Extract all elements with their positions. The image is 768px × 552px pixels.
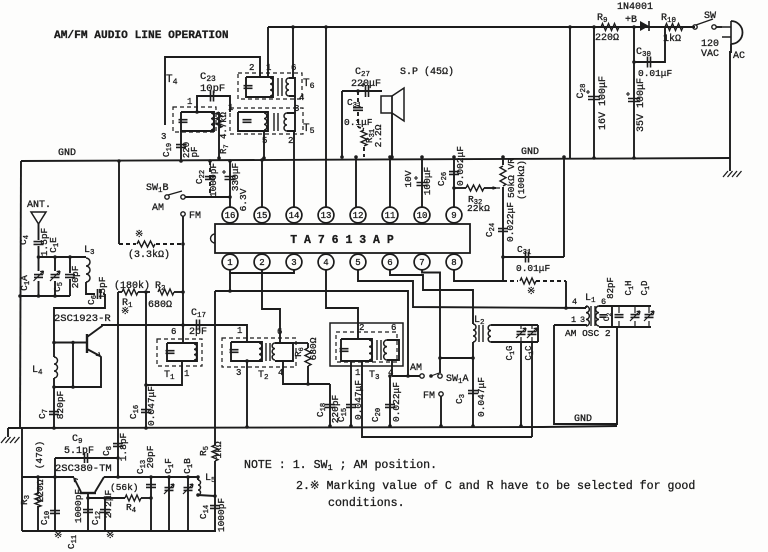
svg-text:820pF: 820pF xyxy=(55,390,66,419)
capacitor C12 2.2uF xyxy=(104,498,106,531)
L2 secondary tank top/bottom xyxy=(491,324,538,326)
capacitor 35V 100uF xyxy=(633,62,635,158)
wire: AC plug down to ground xyxy=(730,44,731,158)
svg-text:14: 14 xyxy=(289,211,300,221)
pin 3 xyxy=(286,254,302,270)
svg-text:conditions.: conditions. xyxy=(328,497,405,510)
ground symbol bottom-left xyxy=(7,428,9,437)
svg-text:(180k): (180k) xyxy=(114,280,150,292)
pin 5 xyxy=(350,254,366,270)
svg-text:ANT.: ANT. xyxy=(27,200,51,211)
wire: pin 4 to T3 pin2 xyxy=(326,269,358,339)
svg-text:6.3V: 6.3V xyxy=(238,188,249,211)
svg-text:2: 2 xyxy=(249,63,254,73)
capacitor 82pF xyxy=(611,305,651,307)
svg-text:15pF: 15pF xyxy=(97,276,108,299)
potentiometer VR 50k (100k) xyxy=(502,157,504,165)
switch SW1A xyxy=(438,374,442,378)
svg-text:4: 4 xyxy=(299,93,304,103)
capacitor C11 1000pF xyxy=(87,498,89,531)
svg-text:2.※ Marking value of C and R h: 2.※ Marking value of C and R have to be … xyxy=(296,480,695,493)
resistor R7 4.7k xyxy=(218,131,220,158)
Q2 emitter (arrow up-left) xyxy=(74,478,81,492)
svg-text:6: 6 xyxy=(387,258,392,268)
svg-text:GND: GND xyxy=(521,147,539,158)
svg-text:220pF: 220pF xyxy=(330,394,341,423)
svg-text:pF: pF xyxy=(190,147,200,158)
svg-text:FM: FM xyxy=(189,211,201,222)
Q2 collector xyxy=(95,477,104,492)
capacitor C30 0.01uF xyxy=(634,27,665,62)
svg-text:6: 6 xyxy=(277,327,282,337)
transformer T6 (dashed box) xyxy=(238,73,302,99)
T2 secondary xyxy=(272,343,275,360)
svg-text:220Ω: 220Ω xyxy=(595,33,619,44)
svg-text:2: 2 xyxy=(288,136,293,146)
wire: pin 13 to top rail xyxy=(325,27,327,208)
svg-text:+B: +B xyxy=(625,15,637,26)
svg-text:2SC380-TM: 2SC380-TM xyxy=(55,463,112,475)
svg-text:680Ω: 680Ω xyxy=(148,300,172,311)
resistor R2 680 xyxy=(158,289,174,295)
svg-text:10pF: 10pF xyxy=(200,83,225,95)
resistor R1 (180k) xyxy=(118,291,122,293)
resistor R6 680 xyxy=(307,343,309,348)
svg-text:0.01μF: 0.01μF xyxy=(638,68,673,79)
wire: T2 pin3 to bottom rail xyxy=(246,339,248,342)
resistor R3 220 (470) xyxy=(37,477,39,494)
Q2 base drop xyxy=(87,493,89,498)
ground symbol power xyxy=(729,158,731,171)
capacitor C3 0.047uF xyxy=(472,358,474,426)
wire: collector line xyxy=(104,476,198,478)
wire: mid GND rail xyxy=(21,158,730,161)
resistor R32 22k xyxy=(452,186,456,190)
svg-text:1: 1 xyxy=(227,258,232,268)
svg-text:10: 10 xyxy=(417,211,428,221)
svg-text:16: 16 xyxy=(225,211,236,221)
svg-text:22kΩ: 22kΩ xyxy=(467,203,490,214)
svg-text:0.047μF: 0.047μF xyxy=(476,377,487,417)
capacitor C8 1.8pF xyxy=(113,444,123,447)
T6 secondary coil xyxy=(286,78,289,96)
wire: pin 8 to VR column xyxy=(454,269,503,281)
wire: T3 pin4 down xyxy=(391,360,393,376)
T2 core xyxy=(266,343,270,361)
svg-text:1: 1 xyxy=(228,103,233,113)
terminal FM 2 xyxy=(439,392,443,396)
svg-text:(470): (470) xyxy=(34,441,45,470)
wire: SW1B to 330uF node xyxy=(185,196,230,198)
capacitor C13 20pF xyxy=(150,477,152,531)
capacitor C16 0.047uF xyxy=(144,290,148,294)
svg-text:AM/FM AUDIO LINE OPERATION: AM/FM AUDIO LINE OPERATION xyxy=(54,30,229,42)
svg-text:10V: 10V xyxy=(403,170,414,187)
svg-text:82pF: 82pF xyxy=(606,277,616,299)
svg-text:1: 1 xyxy=(237,326,242,336)
svg-text:680Ω: 680Ω xyxy=(308,337,319,360)
svg-text:※: ※ xyxy=(135,230,143,241)
transformer T1 (dashed box) xyxy=(157,339,202,366)
wire: pin 11 to GND rail xyxy=(389,157,391,208)
wire: T5 pin5 to GND rail xyxy=(263,131,265,158)
T6 core xyxy=(278,78,282,96)
wire: pin 12 to GND rail xyxy=(355,157,357,208)
svg-text:1N4001: 1N4001 xyxy=(617,2,653,13)
wire: base bias drop xyxy=(72,343,74,388)
svg-text:3: 3 xyxy=(161,132,166,142)
wire: SW1A branch to L2/C3 xyxy=(440,357,473,359)
T2 primary tank xyxy=(231,342,262,361)
wire: T6 pin4 to T5 pin3 xyxy=(294,96,296,113)
capacitor 330uF 6.3V xyxy=(229,161,231,208)
svg-text:220Ω: 220Ω xyxy=(35,479,46,502)
svg-text:0.047μF: 0.047μF xyxy=(146,386,157,426)
pin 10 xyxy=(414,207,430,223)
wire: pin 5 staircase to L1 pin4 xyxy=(358,269,586,308)
svg-text:2: 2 xyxy=(259,258,264,268)
wire: T5 pin2 to IC pin 14 xyxy=(293,131,295,208)
svg-text:0.01μF: 0.01μF xyxy=(516,263,551,274)
capacitor C23 10pF xyxy=(197,96,230,112)
svg-text:T A 7 6 1 3 A P: T A 7 6 1 3 A P xyxy=(290,234,394,247)
pin 7 xyxy=(414,254,430,270)
svg-text:2pF: 2pF xyxy=(189,327,207,338)
capacitor C27 220uF xyxy=(342,90,382,92)
resistor (3.3k) dashed with * xyxy=(119,243,136,245)
svg-text:3: 3 xyxy=(294,104,299,114)
wire: pin 1 bus xyxy=(215,273,230,291)
T3 core xyxy=(377,340,381,360)
resistor R31 2.2ohm (dashed) xyxy=(357,112,359,127)
wire: T6 pin6 to top rail xyxy=(292,27,294,78)
wire: FM down to R2/C17 node xyxy=(182,216,184,325)
svg-text:FM: FM xyxy=(423,391,435,402)
variable capacitor C1F xyxy=(168,477,170,531)
wire: 2SC380 cell left edge xyxy=(21,428,23,531)
svg-text:3: 3 xyxy=(580,315,585,325)
svg-text:16V 100μF: 16V 100μF xyxy=(598,76,609,130)
T3 shield box xyxy=(330,323,403,366)
variable capacitor C1B xyxy=(187,477,189,531)
svg-text:220μF: 220μF xyxy=(351,79,381,90)
svg-text:5: 5 xyxy=(355,258,360,268)
svg-text:SW1A: SW1A xyxy=(446,374,469,386)
capacitor C19 220pF xyxy=(180,131,182,160)
svg-text:9: 9 xyxy=(451,211,456,221)
pin 14 xyxy=(286,207,302,223)
svg-text:1.8pF: 1.8pF xyxy=(118,432,129,461)
wire: pin1 bus down to R5 xyxy=(214,291,216,445)
pin 13 xyxy=(318,207,334,223)
svg-text:AM: AM xyxy=(152,203,164,214)
svg-text:AM OSC 2: AM OSC 2 xyxy=(565,328,611,339)
svg-text:1: 1 xyxy=(184,369,189,379)
variable capacitor C5 xyxy=(54,257,56,271)
wire: C1G to bottom rail xyxy=(520,342,522,426)
T5 secondary coil xyxy=(284,113,287,131)
capacitor 20pF xyxy=(69,257,71,273)
svg-text:20pF: 20pF xyxy=(70,265,81,288)
wire: speaker to GND rail xyxy=(391,113,393,157)
svg-text:1: 1 xyxy=(187,97,192,107)
svg-text:1kΩ: 1kΩ xyxy=(213,441,224,458)
transformer T5 (dashed box) xyxy=(230,108,303,134)
wire: antenna node line xyxy=(39,256,87,258)
svg-text:GND: GND xyxy=(574,414,592,425)
pin 9 xyxy=(446,207,462,223)
svg-text:5.1pF: 5.1pF xyxy=(64,446,94,457)
svg-text:2.2Ω: 2.2Ω xyxy=(373,124,384,147)
wire: FM2 to bottom rail xyxy=(440,396,442,426)
svg-text:35V 100μF: 35V 100μF xyxy=(636,78,647,132)
wire: left border vertical xyxy=(20,161,21,428)
svg-text:2SC1923-R: 2SC1923-R xyxy=(54,313,111,325)
svg-text:20pF: 20pF xyxy=(145,445,156,468)
svg-text:0.002μF: 0.002μF xyxy=(455,146,466,186)
pin 11 xyxy=(382,207,398,223)
resistor R5 1k xyxy=(212,445,218,461)
svg-text:1: 1 xyxy=(355,368,360,378)
wire: bottom long rail xyxy=(8,426,617,428)
svg-text:15: 15 xyxy=(257,211,268,221)
svg-text:0.047μF: 0.047μF xyxy=(353,380,364,420)
transformer T3 (dashed box) xyxy=(336,332,397,362)
wire: 3.3k left leg to GND rail xyxy=(118,161,120,244)
pin 15 xyxy=(254,207,270,223)
variable capacitor C1D xyxy=(648,306,650,327)
wire: L2 to C3 node xyxy=(472,342,474,358)
wire: C6 riser xyxy=(54,294,105,343)
wire: top supply rail xyxy=(268,26,695,28)
svg-text:NOTE : 1. SW1 ; AM position.: NOTE : 1. SW1 ; AM position. xyxy=(244,459,437,473)
Q1 emitter xyxy=(87,349,100,356)
wire: cell bottom rail xyxy=(22,530,216,532)
capacitor C2 xyxy=(599,306,612,327)
svg-text:2.2μF: 2.2μF xyxy=(103,489,114,518)
svg-text:3: 3 xyxy=(291,258,296,268)
svg-text:AC: AC xyxy=(733,51,745,62)
wire: C31 right up to GND rail xyxy=(563,157,565,257)
wire: L1 cell GND return xyxy=(554,325,617,424)
Q1 collector to C17 node xyxy=(87,325,183,337)
capacitor C14 1000pF xyxy=(214,496,216,531)
wire: pin 6 staircase to L2 xyxy=(390,269,473,324)
wire: Q2 cell top wire left part xyxy=(22,476,74,478)
capacitor C6 15pF xyxy=(86,282,95,294)
wire: top rail to T6 pin1 xyxy=(267,27,269,77)
switch SW xyxy=(693,25,697,29)
T6 primary tank xyxy=(246,77,273,97)
svg-text:0.022μF: 0.022μF xyxy=(391,382,402,422)
svg-text:0.022μF: 0.022μF xyxy=(505,202,516,242)
wire: C8 feedback column xyxy=(117,292,119,458)
wire: C27 left down to GND rail xyxy=(341,91,343,157)
wire: T1 pin1 to C16 column xyxy=(146,361,182,385)
capacitor C15 0.047uF xyxy=(350,361,352,426)
wire: pin1-pin3 hook xyxy=(230,269,294,273)
svg-text:6: 6 xyxy=(391,323,396,333)
svg-text:1000pF: 1000pF xyxy=(208,163,219,198)
wire: T1 pin6 to C17 node xyxy=(182,325,184,343)
resistor R4 (56k) xyxy=(88,497,125,499)
svg-text:6: 6 xyxy=(171,327,176,337)
T3 primary tank xyxy=(341,339,372,361)
capacitor C28 16V 100uF xyxy=(593,27,595,158)
T4 primary tank xyxy=(181,112,214,131)
T5 core xyxy=(274,113,278,131)
svg-text:GND: GND xyxy=(58,148,76,159)
svg-text:13: 13 xyxy=(321,211,332,221)
svg-text:3: 3 xyxy=(236,368,241,378)
pin 12 xyxy=(350,207,366,223)
wire: power left vertical xyxy=(569,27,571,158)
svg-text:(100kΩ): (100kΩ) xyxy=(516,160,527,200)
Q1 base wire xyxy=(54,342,87,344)
transformer T4 (dashed box) xyxy=(173,107,216,132)
wire: dashed resistor down to L1 feed xyxy=(565,281,567,308)
wire: pin 7 down to SW1A xyxy=(422,269,440,373)
pin 16 xyxy=(222,207,238,223)
capacitor C4 1.5pF xyxy=(34,242,44,245)
resistor dashed * to AM OSC xyxy=(503,280,518,282)
svg-text:1: 1 xyxy=(571,315,576,325)
svg-text:SW1B: SW1B xyxy=(146,183,169,195)
variable capacitor C1A xyxy=(38,257,40,271)
pin 4 xyxy=(318,254,334,270)
terminal FM xyxy=(181,212,185,216)
svg-text:※: ※ xyxy=(527,287,535,298)
wire: T2 pin4/R6 bottom bus xyxy=(283,361,330,384)
svg-text:7: 7 xyxy=(419,258,424,268)
capacitor C10 xyxy=(54,477,56,531)
capacitor C26 0.002uF on pin 9 xyxy=(453,157,455,208)
T5 primary tank xyxy=(238,112,268,131)
svg-text:100μF: 100μF xyxy=(422,166,433,195)
svg-text:330μF: 330μF xyxy=(230,162,241,191)
variable capacitor C1H xyxy=(634,306,636,327)
svg-text:SW: SW xyxy=(704,11,716,22)
wire: pin 2 to T2 pin6 xyxy=(262,269,280,342)
svg-text:11: 11 xyxy=(385,211,396,221)
svg-text:1000pF: 1000pF xyxy=(73,489,84,524)
wire: L1 bottom stub to GND xyxy=(554,324,586,326)
svg-text:12: 12 xyxy=(353,211,364,221)
svg-text:2: 2 xyxy=(359,323,364,333)
capacitor C24 0.022uF xyxy=(498,229,508,232)
svg-text:S.P (45Ω): S.P (45Ω) xyxy=(400,66,454,78)
pin 2 xyxy=(254,254,270,270)
pin 1 xyxy=(222,254,238,270)
capacitor C18 220pF xyxy=(329,384,331,426)
capacitor 10V 100uF on pin 10 xyxy=(421,157,423,208)
capacitor C7 820pF xyxy=(53,387,55,428)
op-amp/IC U1 TA7613AP body xyxy=(215,224,470,253)
wire: C1C down to lower return line xyxy=(531,342,533,437)
svg-text:(3.3kΩ): (3.3kΩ) xyxy=(128,249,170,261)
variable capacitor C1C xyxy=(528,332,537,335)
capacitor C20 0.022uF xyxy=(389,376,391,426)
capacitor C31 0.1uF (dashed) xyxy=(357,91,359,106)
T1 tank xyxy=(167,343,197,361)
variable capacitor C1G xyxy=(517,332,526,335)
svg-text:AM: AM xyxy=(410,363,422,374)
svg-text:VAC: VAC xyxy=(701,49,719,60)
svg-text:※: ※ xyxy=(121,307,129,318)
capacitor C31 0.01uF xyxy=(501,255,505,259)
pin 6 xyxy=(382,254,398,270)
svg-text:(56k): (56k) xyxy=(110,482,139,493)
wire: tank bottom line xyxy=(20,295,70,297)
AC plug xyxy=(731,21,743,44)
svg-text:※: ※ xyxy=(106,531,114,542)
wire: lower return line to T3 pin1 xyxy=(362,362,532,437)
svg-text:※: ※ xyxy=(54,531,62,542)
resistor R10 xyxy=(665,24,683,31)
svg-text:8: 8 xyxy=(451,258,456,268)
transformer T2 (dashed box) xyxy=(222,338,296,367)
capacitor C22 1000pF (dashed) xyxy=(209,161,211,197)
capacitor C17 2pF xyxy=(181,290,185,294)
svg-text:4: 4 xyxy=(572,297,577,307)
resistor R9 xyxy=(601,24,619,31)
wire: T4 loop top xyxy=(165,57,260,125)
svg-text:1000pF: 1000pF xyxy=(216,498,227,533)
wire: T3 pin4 to AM terminal xyxy=(392,375,420,377)
T3 secondary coil xyxy=(384,340,387,360)
pin 8 xyxy=(446,254,462,270)
svg-text:4: 4 xyxy=(323,258,328,268)
wire: pin 15 to GND rail xyxy=(261,160,263,208)
node +B junction xyxy=(632,25,636,29)
